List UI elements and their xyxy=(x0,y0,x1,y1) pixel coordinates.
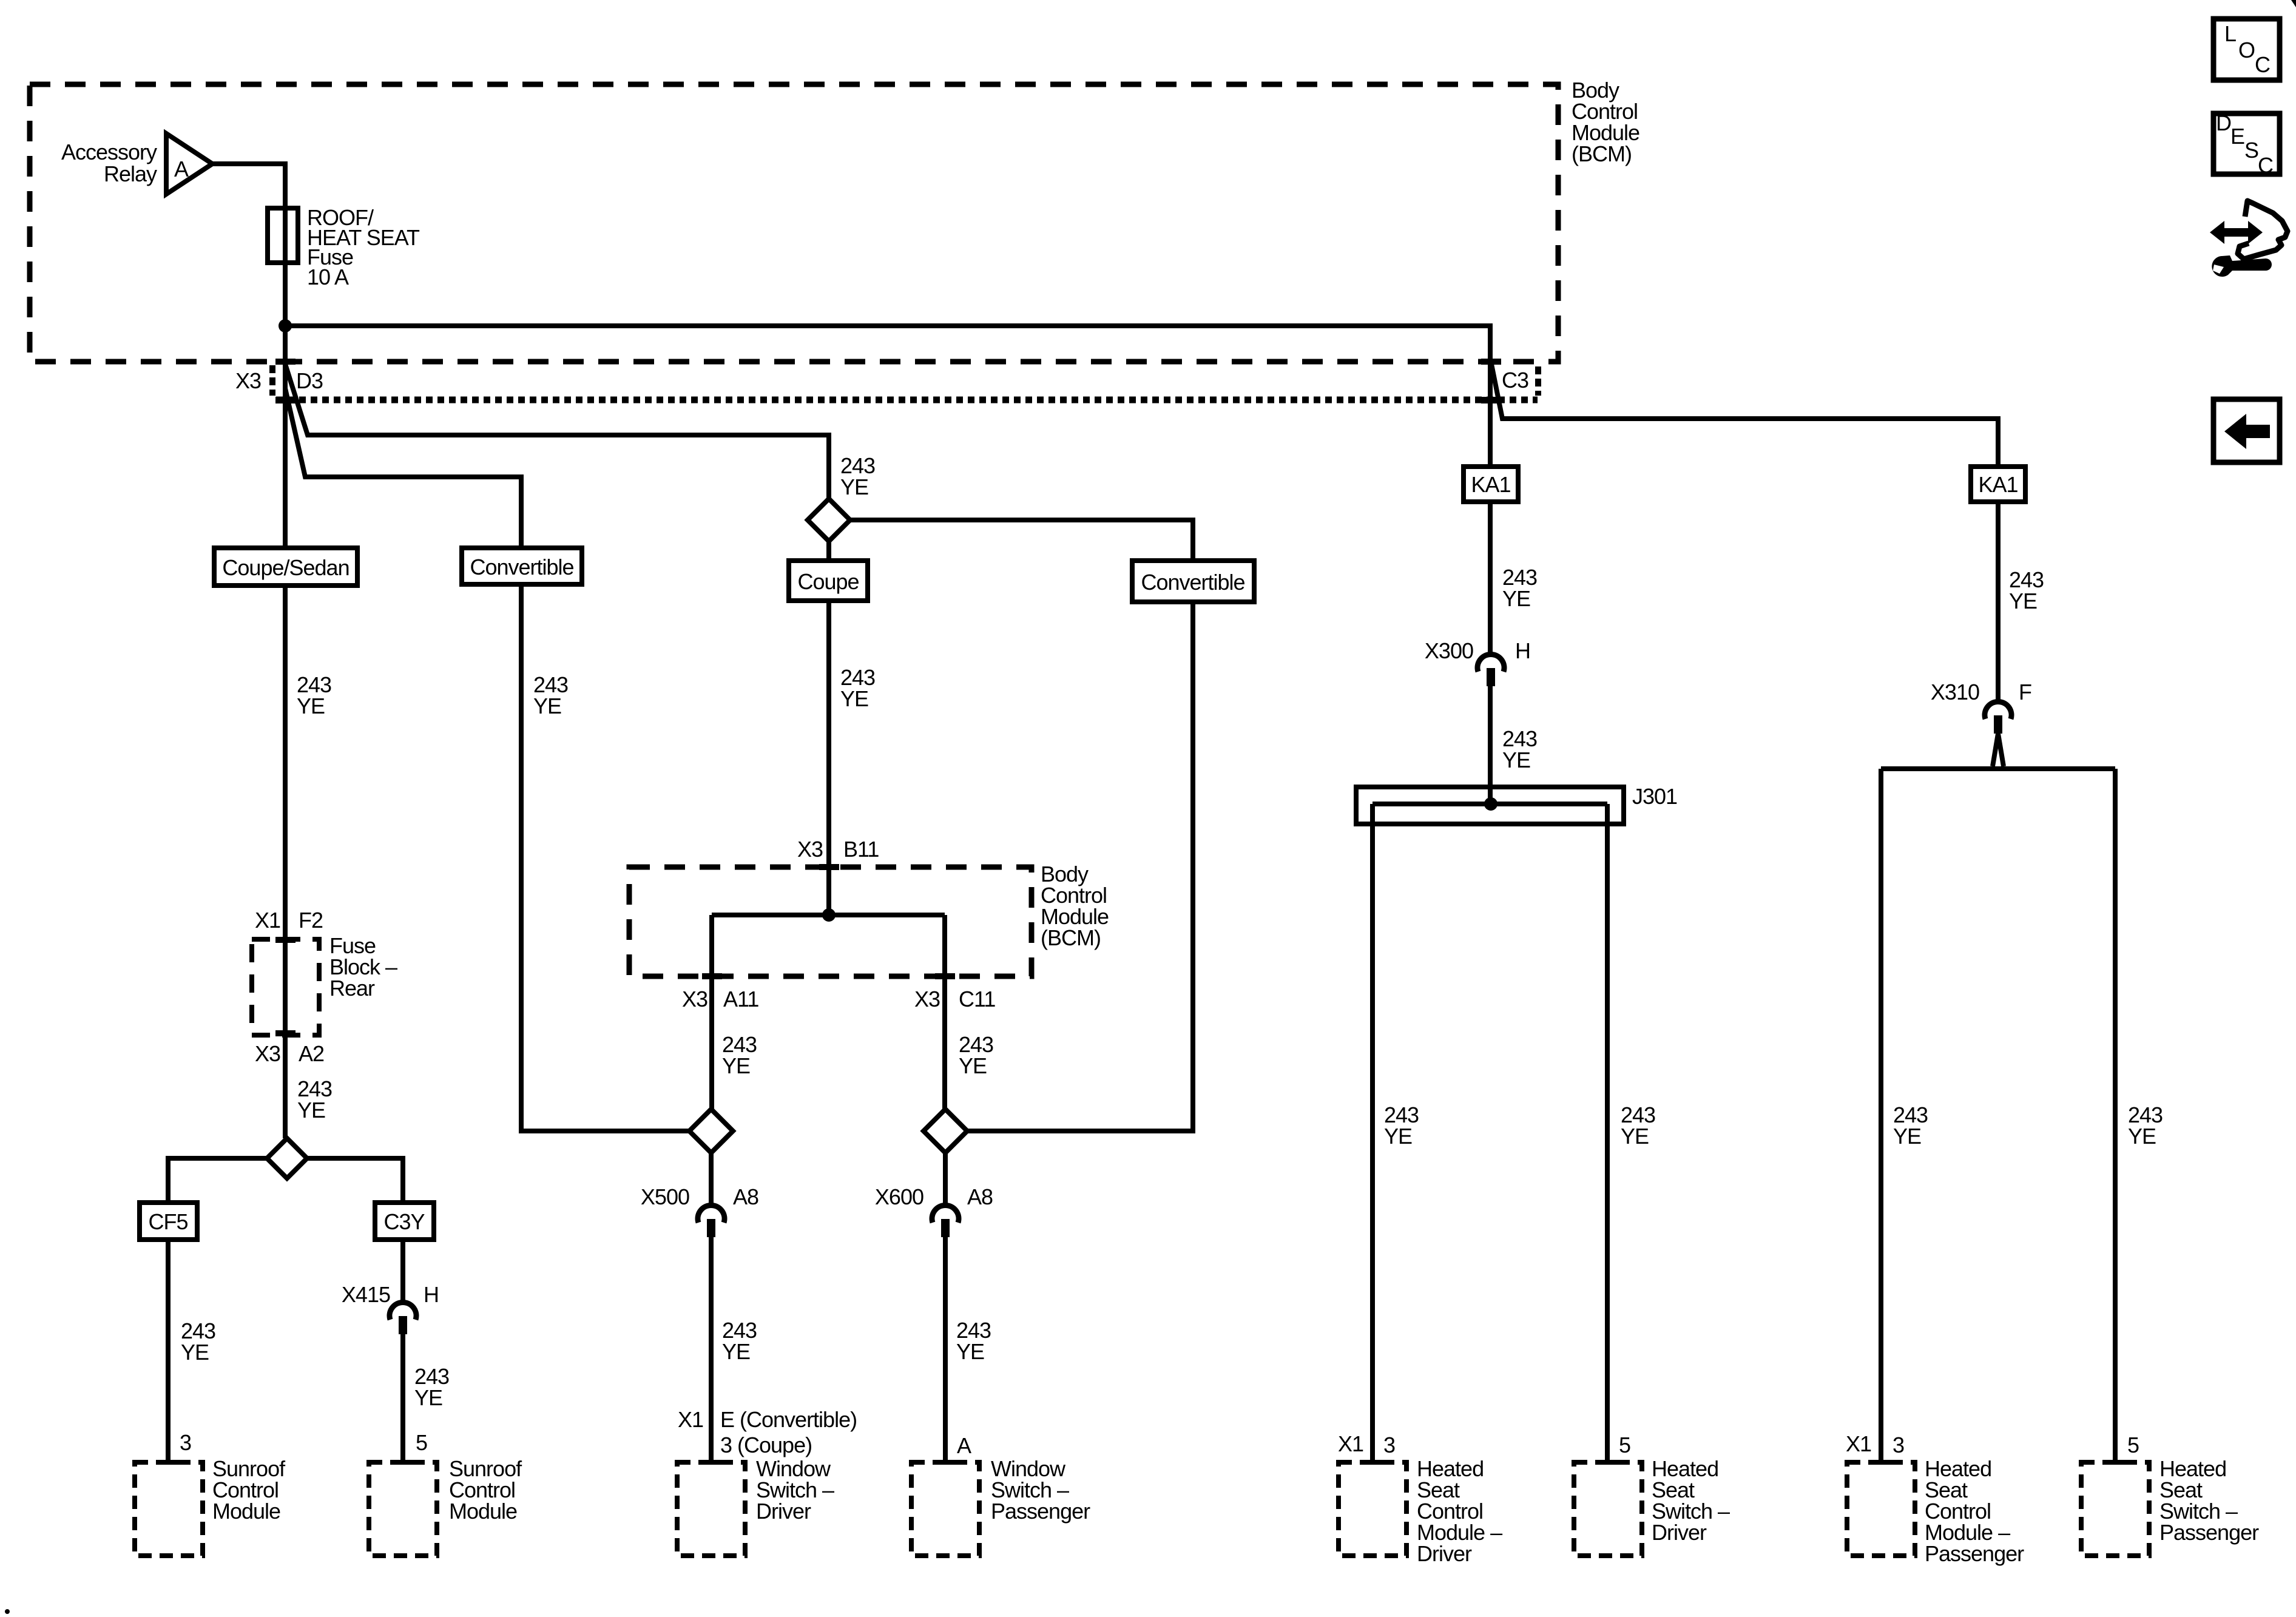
svg-text:X3: X3 xyxy=(235,368,261,393)
svg-text:X1: X1 xyxy=(1846,1431,1871,1456)
svg-text:Driver: Driver xyxy=(756,1499,811,1524)
svg-text:5: 5 xyxy=(2127,1433,2139,1457)
wire X600 diamond to connector xyxy=(943,1153,948,1204)
connector X500 arc xyxy=(698,1205,724,1223)
connector X310 arc xyxy=(1985,701,2011,719)
page period mark xyxy=(5,1609,10,1614)
terminal bar at C3 on BCM1 edge xyxy=(1481,359,1501,365)
accessory relay triangle A xyxy=(166,133,212,194)
service icon wrench xyxy=(2212,255,2272,277)
svg-text:X1: X1 xyxy=(1338,1431,1363,1456)
connector X600 arc xyxy=(932,1205,959,1223)
svg-text:X3: X3 xyxy=(797,837,823,862)
back arrow icon box xyxy=(2213,399,2280,462)
CF5 tag box xyxy=(140,1203,197,1240)
wire diamond to convertible2 box xyxy=(850,520,1193,561)
connector X500 stub xyxy=(707,1219,715,1237)
svg-text:YE: YE xyxy=(1621,1124,1649,1149)
wire diamond to C3Y xyxy=(307,1158,403,1203)
svg-text:YE: YE xyxy=(297,1098,325,1122)
connector X310 stub xyxy=(1994,715,2002,734)
heated seat control module passenger dashed box xyxy=(1847,1462,1915,1556)
terminal bar sunroof module 1 xyxy=(158,1460,178,1465)
svg-text:Passenger: Passenger xyxy=(991,1499,1090,1524)
terminal bar at C11 on BCM2 edge xyxy=(935,973,955,979)
svg-text:C3: C3 xyxy=(1502,368,1528,393)
terminal bar at D3 on connector line xyxy=(275,397,295,403)
svg-text:3: 3 xyxy=(1383,1433,1395,1457)
wire CF5 down to sunroof control module xyxy=(166,1240,171,1462)
svg-text:5: 5 xyxy=(416,1430,427,1455)
svg-text:YE: YE xyxy=(959,1053,987,1078)
connector X415 stub xyxy=(399,1316,407,1334)
svg-text:H: H xyxy=(424,1282,439,1307)
svg-text:CF5: CF5 xyxy=(148,1209,187,1234)
wire bar to heated seat switch passenger xyxy=(2113,769,2118,1462)
wire convertible1 down to X500 diamond xyxy=(521,584,689,1131)
Convertible tag box 1 xyxy=(462,548,582,584)
connector X300 stub xyxy=(1487,668,1495,686)
svg-text:E: E xyxy=(2230,124,2244,149)
wire X300 down to J301 xyxy=(1488,686,1493,804)
Coupe/Sedan tag box xyxy=(214,548,357,586)
svg-text:YE: YE xyxy=(956,1339,984,1364)
Fuse Block Rear dashed box xyxy=(252,939,319,1035)
svg-text:C: C xyxy=(2258,153,2273,178)
splice diamond coupe/convertible xyxy=(808,499,850,541)
svg-text:3: 3 xyxy=(1893,1433,1904,1457)
heated seat switch passenger dashed box xyxy=(2081,1462,2149,1556)
terminal bar window switch passenger xyxy=(936,1460,955,1465)
page corner tick mark xyxy=(2291,0,2296,7)
BCM2 dashed box xyxy=(629,867,1032,976)
terminal bar sunroof module 2 xyxy=(393,1460,413,1465)
wire X600 down to window switch passenger xyxy=(943,1237,948,1462)
service icon double arrow xyxy=(2210,221,2263,244)
svg-text:A: A xyxy=(174,157,189,181)
wire KA1 left down to X300 xyxy=(1488,502,1493,653)
svg-text:O: O xyxy=(2238,38,2255,62)
heated seat control module driver dashed box xyxy=(1339,1462,1406,1556)
BCM1 dashed box xyxy=(30,84,1558,362)
svg-text:A8: A8 xyxy=(967,1184,993,1209)
Coupe tag box xyxy=(789,561,868,601)
svg-text:Convertible: Convertible xyxy=(470,555,573,579)
svg-text:YE: YE xyxy=(297,694,325,718)
connector dotted line X3 xyxy=(276,397,1538,403)
svg-text:KA1: KA1 xyxy=(1471,472,1510,497)
svg-text:X310: X310 xyxy=(1931,680,1979,704)
svg-text:X1: X1 xyxy=(678,1407,703,1432)
wire fan at D3 pin to coupe diamond xyxy=(285,364,829,499)
svg-text:YE: YE xyxy=(181,1340,209,1365)
wire X310 splice bar xyxy=(1881,766,2115,771)
wire X415 down to sunroof control module 2 xyxy=(400,1334,405,1462)
svg-text:D: D xyxy=(2216,110,2231,135)
terminal bar at B11 on BCM2 edge xyxy=(819,864,839,870)
wire diamond down to Coupe box xyxy=(826,541,831,841)
svg-text:X3: X3 xyxy=(914,987,940,1011)
svg-text:YE: YE xyxy=(533,694,561,718)
svg-text:X500: X500 xyxy=(641,1184,689,1209)
Convertible tag box 2 xyxy=(1132,561,1254,602)
svg-text:KA1: KA1 xyxy=(1978,472,2017,497)
sunroof control module 1 dashed box xyxy=(135,1462,203,1556)
heated seat switch driver dashed box xyxy=(1574,1462,1642,1556)
connector X300 arc xyxy=(1477,654,1504,672)
wire diamond to CF5 xyxy=(168,1158,267,1203)
fuse ROOF/HEAT SEAT 10A symbol xyxy=(268,208,298,263)
LOC icon box xyxy=(2213,19,2280,80)
splice diamond X600 xyxy=(923,1109,967,1153)
terminal bar heated seat control module driver xyxy=(1363,1460,1382,1465)
wire fan at D3 pin to convertible branch xyxy=(285,388,521,548)
svg-text:Passenger: Passenger xyxy=(1925,1541,2024,1566)
window switch passenger dashed box xyxy=(911,1462,979,1556)
svg-text:A8: A8 xyxy=(733,1184,758,1209)
wire X500 diamond to connector xyxy=(709,1153,714,1204)
wire BCM2 to X500 diamond xyxy=(709,915,714,1109)
svg-text:Coupe: Coupe xyxy=(797,569,859,594)
svg-text:YE: YE xyxy=(722,1053,750,1078)
svg-text:3 (Coupe): 3 (Coupe) xyxy=(720,1433,812,1457)
DESC icon box xyxy=(2213,113,2280,174)
svg-text:X3: X3 xyxy=(682,987,707,1011)
junction node inside BCM2 xyxy=(822,908,836,922)
svg-text:YE: YE xyxy=(414,1385,442,1410)
connector separator dashes at X3/D3 xyxy=(269,365,275,396)
svg-text:Passenger: Passenger xyxy=(2159,1520,2259,1545)
wire X500 down to window switch driver xyxy=(709,1237,714,1462)
svg-text:YE: YE xyxy=(2128,1124,2156,1149)
C3Y tag box xyxy=(375,1203,434,1240)
splice diamond sunroof xyxy=(267,1138,307,1178)
svg-text:J301: J301 xyxy=(1632,784,1677,809)
terminal bar at C3 on connector line xyxy=(1481,397,1501,403)
svg-text:C: C xyxy=(2255,52,2270,77)
wire KA1 right down to X310 xyxy=(1996,502,2001,700)
svg-text:Module: Module xyxy=(212,1499,280,1524)
svg-text:F2: F2 xyxy=(299,908,323,933)
KA1 tag box left xyxy=(1464,467,1518,502)
connector X415 arc xyxy=(390,1302,416,1320)
svg-text:X3: X3 xyxy=(255,1041,280,1066)
terminal bar fuse block bottom xyxy=(275,1030,295,1036)
wire junction horizontal run to C3 xyxy=(285,326,1490,467)
svg-text:A2: A2 xyxy=(299,1041,324,1066)
svg-text:A: A xyxy=(957,1433,971,1458)
back arrow icon glyph xyxy=(2224,414,2270,449)
splice diamond X500 xyxy=(689,1109,733,1153)
terminal bar at A11 on BCM2 edge xyxy=(702,973,722,979)
splice pack J301 bus bar xyxy=(1373,802,1607,806)
svg-text:C3Y: C3Y xyxy=(383,1209,425,1234)
wire internal BCM2 bus xyxy=(712,913,945,917)
terminal bar heated seat switch driver xyxy=(1598,1460,1617,1465)
terminal bar fuse block top xyxy=(275,937,295,943)
wire fork below X310 xyxy=(1993,734,2004,766)
svg-text:X1: X1 xyxy=(255,908,280,933)
svg-text:Coupe/Sedan: Coupe/Sedan xyxy=(222,555,349,580)
svg-text:Rear: Rear xyxy=(329,976,375,1001)
svg-text:5: 5 xyxy=(1619,1433,1630,1457)
svg-text:YE: YE xyxy=(1502,748,1530,772)
svg-text:A11: A11 xyxy=(723,987,758,1011)
wire J301 to heated seat control module driver xyxy=(1370,804,1375,1462)
svg-text:C11: C11 xyxy=(959,987,995,1011)
svg-text:YE: YE xyxy=(1502,586,1530,611)
svg-text:YE: YE xyxy=(1893,1124,1921,1149)
wire J301 to heated seat switch driver xyxy=(1605,804,1610,1462)
junction node on J301 bus xyxy=(1484,797,1497,811)
svg-text:H: H xyxy=(1515,638,1530,663)
wire B11 into BCM2 xyxy=(826,841,831,915)
svg-text:3: 3 xyxy=(180,1430,191,1455)
terminal bar at D3 on BCM1 edge xyxy=(275,359,295,365)
terminal bar heated seat control module passenger xyxy=(1871,1460,1891,1465)
svg-text:X300: X300 xyxy=(1425,638,1473,663)
svg-text:YE: YE xyxy=(1384,1124,1412,1149)
wire C3Y down to X415 xyxy=(400,1240,405,1301)
wire convertible2 down to X600 diamond xyxy=(967,602,1193,1131)
svg-text:Convertible: Convertible xyxy=(1141,570,1244,595)
svg-text:YE: YE xyxy=(2009,589,2037,613)
connector separator dashes at C3 xyxy=(1535,366,1541,396)
svg-text:Driver: Driver xyxy=(1652,1520,1707,1545)
service icon hook outline xyxy=(2238,201,2288,259)
svg-text:(BCM): (BCM) xyxy=(1041,925,1101,950)
window switch driver dashed box xyxy=(677,1462,745,1556)
svg-text:S: S xyxy=(2244,138,2258,163)
sunroof control module 2 dashed box xyxy=(369,1462,437,1556)
wire bar to heated seat control module passenger xyxy=(1879,769,1883,1462)
junction node on 243 YE feed xyxy=(279,319,292,333)
svg-text:Relay: Relay xyxy=(104,161,157,186)
svg-text:Driver: Driver xyxy=(1417,1541,1472,1566)
svg-text:D3: D3 xyxy=(296,368,323,393)
svg-text:F: F xyxy=(2019,680,2031,704)
svg-text:X600: X600 xyxy=(875,1184,923,1209)
svg-text:X415: X415 xyxy=(342,1282,390,1307)
terminal bar window switch driver xyxy=(701,1460,721,1465)
svg-text:Accessory: Accessory xyxy=(61,140,157,164)
svg-text:Module: Module xyxy=(449,1499,517,1524)
splice pack J301 outer box xyxy=(1356,787,1624,824)
svg-text:B11: B11 xyxy=(843,837,879,862)
svg-text:YE: YE xyxy=(722,1339,750,1364)
svg-text:(BCM): (BCM) xyxy=(1572,141,1632,166)
svg-text:YE: YE xyxy=(840,686,868,711)
terminal bar heated seat switch passenger xyxy=(2105,1460,2125,1465)
svg-text:L: L xyxy=(2224,21,2236,46)
svg-text:YE: YE xyxy=(840,474,868,499)
wire accessory relay to fuse to junction to connector D3 xyxy=(212,164,285,548)
wire coupe/sedan down to diamond xyxy=(283,586,288,1138)
svg-text:E (Convertible): E (Convertible) xyxy=(720,1407,857,1432)
KA1 tag box right xyxy=(1971,467,2025,502)
svg-text:10 A: 10 A xyxy=(307,265,349,289)
connector X600 stub xyxy=(941,1219,950,1237)
wire BCM2 to X600 diamond xyxy=(942,915,947,1109)
wire slant at C3 pin to right KA1 branch xyxy=(1491,364,1998,467)
